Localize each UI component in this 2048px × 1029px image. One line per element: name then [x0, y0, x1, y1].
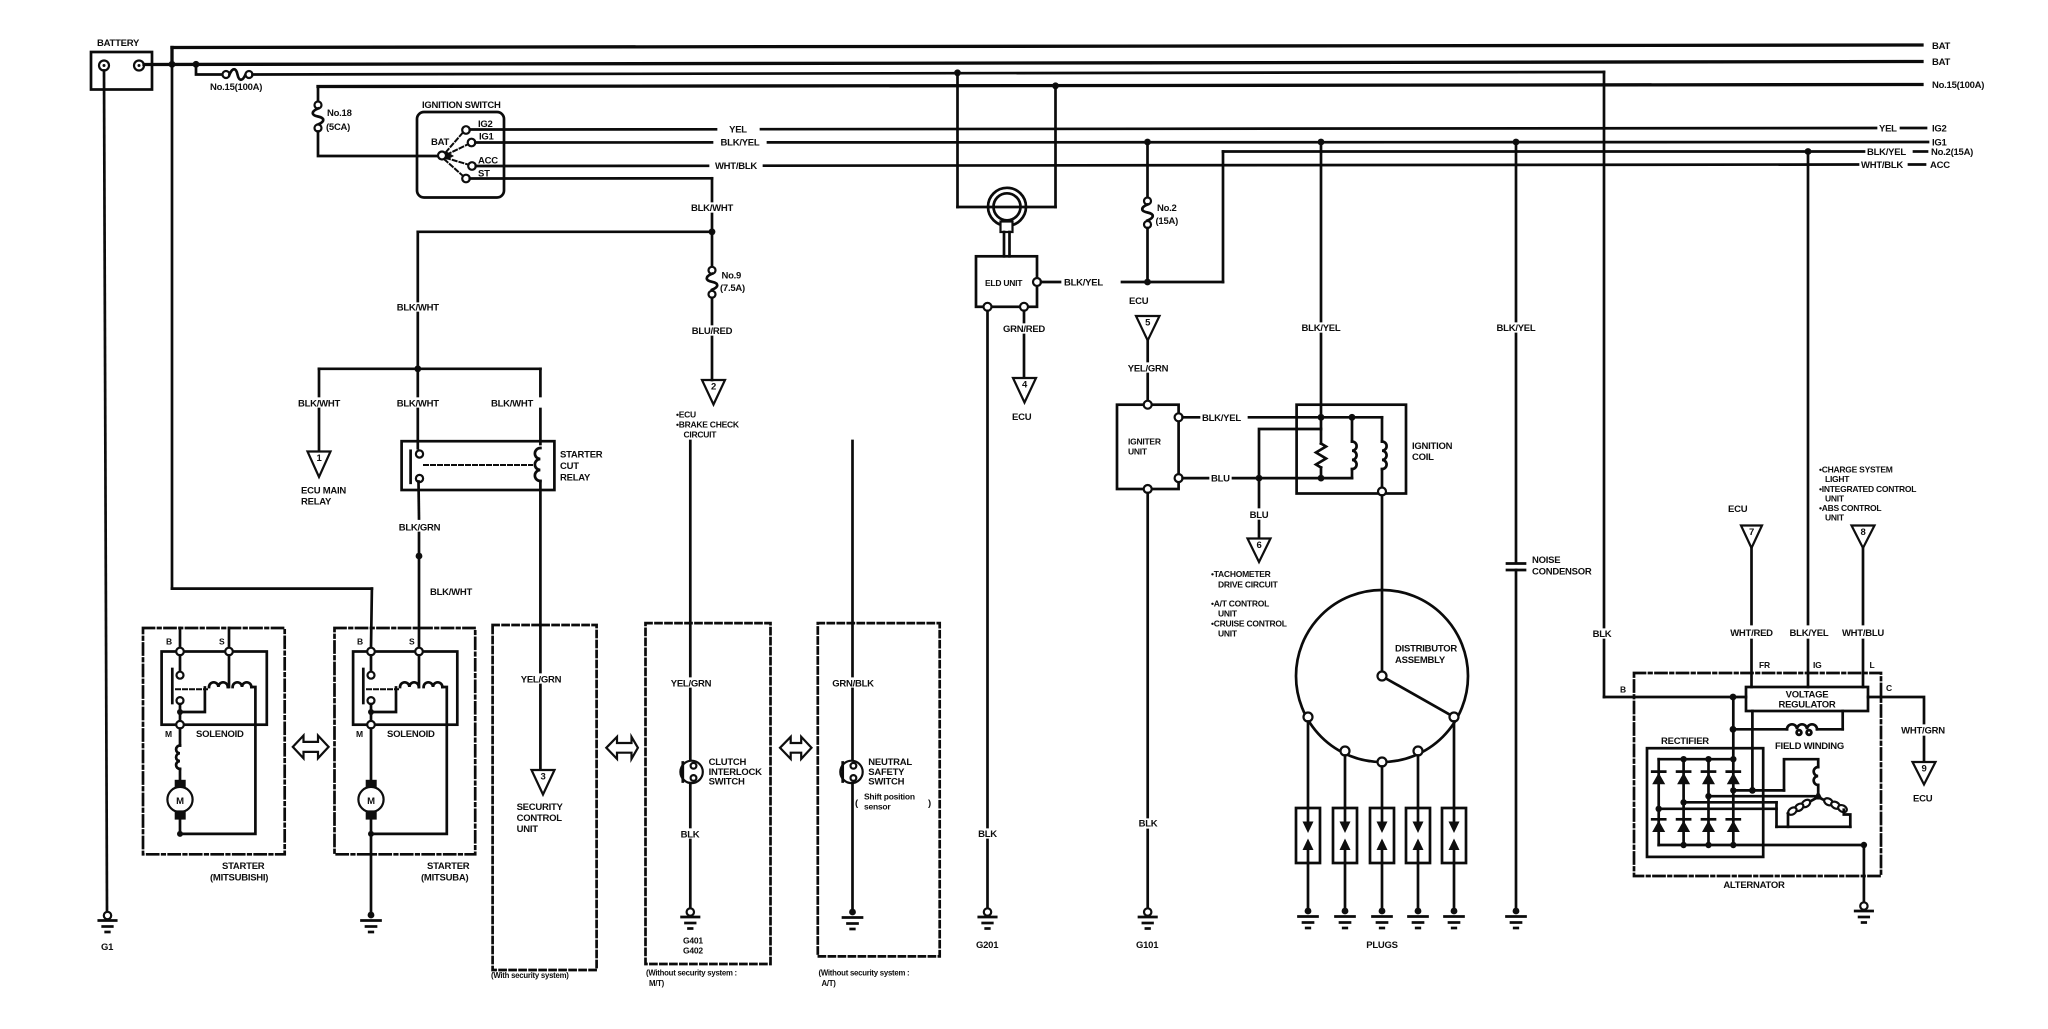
ignition coil box — [1297, 405, 1406, 494]
svg-text:(Without security system :: (Without security system : — [646, 969, 737, 978]
junction dot B rectifier tap — [1730, 694, 1737, 701]
wire WHT/RED to FR — [1750, 548, 1753, 624]
svg-text:•TACHOMETER: •TACHOMETER — [1211, 569, 1271, 579]
svg-text:RELAY: RELAY — [560, 473, 591, 484]
security control unit box — [493, 625, 597, 970]
junction dot coil feed top — [1318, 139, 1325, 146]
svg-text:7: 7 — [1749, 527, 1754, 538]
wire WHT/BLU to L — [1862, 548, 1865, 624]
svg-text:): ) — [928, 798, 931, 809]
junction dot BLU branch — [1256, 475, 1263, 482]
svg-text:DISTRIBUTOR: DISTRIBUTOR — [1395, 644, 1457, 655]
svg-text:9: 9 — [1921, 764, 1926, 775]
wire battery feed to starter B — [171, 65, 174, 589]
junction dot fuse No.2 top — [1144, 139, 1151, 146]
connector 1 (ECU main relay) — [301, 452, 346, 508]
svg-text:M: M — [165, 729, 172, 739]
svg-text:UNIT: UNIT — [1218, 609, 1238, 619]
svg-text:No.15(100A): No.15(100A) — [210, 82, 262, 93]
svg-text:LIGHT: LIGHT — [1825, 474, 1850, 484]
svg-text:BAT: BAT — [1932, 57, 1951, 68]
svg-text:WHT/BLK: WHT/BLK — [715, 161, 757, 172]
svg-text:YEL/GRN: YEL/GRN — [671, 679, 712, 690]
wire plug 4 to ground — [1417, 863, 1420, 907]
ground starter Mitsuba — [362, 912, 381, 932]
svg-text:UNIT: UNIT — [1825, 513, 1845, 523]
igniter unit — [1117, 401, 1183, 493]
wire BAT bus top — [172, 45, 1922, 48]
rectifier box — [1647, 748, 1763, 857]
equivalence arrow 1 — [293, 736, 329, 759]
svg-text:•INTEGRATED CONTROL: •INTEGRATED CONTROL — [1819, 484, 1916, 494]
wire plug 3 to ground — [1381, 863, 1384, 907]
fuse No.9(7.5A) — [707, 232, 745, 298]
svg-text:CIRCUIT: CIRCUIT — [684, 430, 718, 440]
svg-text:STARTER: STARTER — [222, 861, 265, 872]
svg-text:CONDENSOR: CONDENSOR — [1532, 567, 1592, 578]
phase tap D — [1656, 806, 1662, 812]
svg-text:BLU/RED: BLU/RED — [692, 326, 733, 337]
svg-text:YEL: YEL — [1879, 124, 1897, 135]
svg-text:BLK/WHT: BLK/WHT — [397, 399, 439, 410]
svg-text:RELAY: RELAY — [301, 497, 332, 508]
wire ELD GRN/RED to connector 4 — [1023, 311, 1026, 322]
junction dot A — [169, 61, 176, 68]
wire battery negative to G1 — [104, 71, 107, 912]
svg-text:IG: IG — [1813, 660, 1822, 670]
phase tap C — [1680, 799, 1686, 805]
neutral safety switch box — [818, 623, 940, 956]
svg-text:S: S — [409, 637, 415, 647]
wire distributor to plug 1 — [1307, 722, 1310, 809]
svg-text:BLU: BLU — [1250, 510, 1269, 521]
svg-text:B: B — [357, 637, 363, 647]
wire IG2 (YEL) — [470, 128, 716, 131]
wire relay contact to solenoid S — [417, 482, 420, 519]
resistor (coil ballast) — [1316, 417, 1326, 478]
connector 8 (charge light to L) — [1852, 526, 1875, 549]
svg-text:BLK/WHT: BLK/WHT — [691, 203, 733, 214]
wire plug 1 to ground — [1307, 863, 1310, 907]
svg-text:BLK/WHT: BLK/WHT — [430, 587, 472, 598]
ground plug 5 — [1445, 908, 1464, 928]
equivalence arrow 2 — [606, 737, 638, 759]
starter (Mitsubishi) armature coil — [179, 729, 182, 746]
ELD unit — [976, 256, 1041, 311]
svg-text:No.2(15A): No.2(15A) — [1931, 147, 1973, 158]
svg-text:•A/T CONTROL: •A/T CONTROL — [1211, 599, 1269, 609]
wire plug 5 to ground — [1453, 863, 1456, 907]
wire Mitsuba motor to ground — [370, 834, 373, 911]
svg-text:BLK/YEL: BLK/YEL — [1202, 413, 1241, 424]
ground plug 1 — [1299, 908, 1318, 928]
junction dot resistor top — [1318, 414, 1325, 421]
starter cut relay — [402, 441, 603, 490]
svg-text:G401: G401 — [683, 936, 703, 946]
rectifier top bus — [1659, 758, 1734, 761]
svg-text:UNIT: UNIT — [1825, 494, 1845, 504]
ground alternator — [1855, 902, 1872, 922]
svg-text:M/T): M/T) — [649, 979, 665, 988]
wire ELD sensor right drop — [1054, 86, 1057, 207]
svg-text:FR: FR — [1759, 660, 1770, 670]
svg-text:NOISE: NOISE — [1532, 555, 1560, 566]
diode D7 — [1702, 819, 1715, 832]
svg-text:(5CA): (5CA) — [326, 122, 350, 133]
svg-text:(15A): (15A) — [1156, 216, 1179, 227]
svg-text:ECU: ECU — [1728, 504, 1748, 515]
alternator box — [1634, 673, 1881, 876]
svg-text:(Without security system :: (Without security system : — [819, 969, 910, 978]
connector 5 (ECU to igniter) — [1129, 296, 1160, 341]
svg-text:ASSEMBLY: ASSEMBLY — [1395, 655, 1446, 666]
wire relay coil to security unit — [539, 481, 542, 672]
svg-text:BLK: BLK — [681, 830, 700, 841]
junction dot noise condenser — [1513, 139, 1520, 146]
wire No.18 fuse to ignition switch BAT — [318, 132, 437, 157]
svg-text:sensor: sensor — [864, 802, 891, 812]
connector 6 (tachometer drive) — [1211, 539, 1287, 639]
svg-text:IG2: IG2 — [1932, 124, 1947, 135]
phase tap A — [1730, 787, 1736, 793]
diode D5 — [1652, 819, 1665, 832]
ground (neutral safety) — [843, 909, 862, 929]
wire ELD sensor bottom — [958, 206, 1056, 209]
svg-text:G101: G101 — [1136, 940, 1159, 951]
junction dot ELD feed 1 — [954, 69, 961, 76]
connector 7 (ECU to FR) — [1728, 504, 1762, 548]
svg-text:G1: G1 — [101, 942, 114, 953]
ignition coil secondary winding — [1378, 417, 1387, 495]
wire No.18 fuse drop — [317, 87, 320, 102]
rectifier bottom bus to ground riser — [1659, 844, 1864, 847]
svg-text:M: M — [356, 729, 363, 739]
connector 4 (ECU) — [1012, 378, 1036, 423]
ground plug 3 — [1373, 908, 1392, 928]
ignition coil primary winding — [1352, 417, 1357, 478]
diode D8 — [1727, 819, 1740, 832]
wire regulator stub right — [1841, 711, 1844, 729]
ground G101 — [1139, 908, 1156, 928]
junction dot rotor tap — [1749, 787, 1756, 794]
wire fuse No.15 output to alternator B — [253, 72, 1605, 75]
starter (Mitsubishi) motor — [167, 780, 192, 837]
distributor assembly — [1296, 590, 1468, 767]
svg-text:UNIT: UNIT — [1128, 447, 1148, 457]
spark plug 4 — [1406, 808, 1430, 863]
wire IG1 (BLK/YEL) — [475, 141, 712, 144]
svg-text:BLK/WHT: BLK/WHT — [491, 399, 533, 410]
svg-text:SOLENOID: SOLENOID — [196, 729, 244, 740]
svg-text:ELD UNIT: ELD UNIT — [985, 278, 1023, 288]
svg-text:BLK: BLK — [978, 829, 997, 840]
connector 3 (security control unit) — [517, 770, 564, 835]
wire No.2(15A) feed bus — [1223, 150, 1864, 153]
diode D3 — [1702, 772, 1715, 785]
svg-text:SWITCH: SWITCH — [709, 777, 745, 788]
junction dot primary top — [1349, 414, 1356, 421]
wire No.15 feed bus — [318, 85, 1922, 87]
svg-text:GRN/BLK: GRN/BLK — [832, 679, 874, 690]
wire YEL/GRN to igniter — [1146, 341, 1149, 362]
svg-text:UNIT: UNIT — [517, 824, 539, 835]
svg-text:YEL/GRN: YEL/GRN — [521, 675, 562, 686]
junction dot on ELD wire — [1144, 279, 1151, 286]
svg-text:6: 6 — [1256, 540, 1261, 551]
svg-text:(With security system): (With security system) — [491, 971, 569, 980]
wire ELD to G201 — [986, 311, 989, 827]
neutral safety switch — [840, 757, 931, 812]
junction dot ELD feed 2 — [1052, 82, 1059, 89]
wire drop to Mitsuba B terminal — [370, 589, 374, 648]
diode D4 — [1727, 772, 1740, 785]
junction dot ST branch — [709, 228, 716, 235]
svg-text:BATTERY: BATTERY — [97, 38, 140, 49]
svg-text:BLK/YEL: BLK/YEL — [721, 138, 760, 149]
spark plug 1 — [1296, 808, 1320, 863]
svg-text:UNIT: UNIT — [1218, 629, 1238, 639]
svg-text:CONTROL: CONTROL — [517, 813, 563, 824]
wire to fuse No.15 — [196, 65, 223, 75]
svg-text:G201: G201 — [976, 940, 999, 951]
fuse No.18(5CA) — [313, 102, 352, 134]
svg-text:S: S — [219, 637, 225, 647]
svg-text:3: 3 — [540, 772, 545, 783]
starter (Mitsuba) solenoid — [353, 637, 457, 834]
noise condenser — [1507, 555, 1592, 578]
svg-text:ACC: ACC — [1930, 160, 1950, 171]
svg-text:•BRAKE CHECK: •BRAKE CHECK — [676, 420, 740, 430]
rectifier column 2 — [1682, 759, 1685, 845]
wire stub between BAT buses — [170, 48, 173, 65]
connector 9 (ECU) — [1913, 762, 1936, 805]
battery — [91, 38, 152, 90]
ELD current sensor ring — [988, 188, 1026, 256]
svg-text:IG1: IG1 — [479, 132, 495, 143]
starter (Mitsuba) outer box — [335, 628, 476, 854]
svg-text:DRIVE CIRCUIT: DRIVE CIRCUIT — [1218, 580, 1279, 590]
diode D2 — [1677, 772, 1690, 785]
svg-text:Shift position: Shift position — [864, 792, 915, 802]
junction dot IG drop — [1805, 148, 1812, 155]
svg-text:L: L — [1870, 660, 1875, 670]
svg-text:YEL/GRN: YEL/GRN — [1128, 364, 1169, 375]
starter (Mitsubishi) outer box — [143, 628, 285, 854]
wire ST (BLK/WHT) — [470, 177, 712, 180]
svg-text:WHT/RED: WHT/RED — [1730, 628, 1773, 639]
svg-text:BLK/YEL: BLK/YEL — [1867, 147, 1906, 158]
svg-text:BLK/YEL: BLK/YEL — [1302, 323, 1341, 334]
stator winding assembly — [1777, 759, 1851, 827]
svg-text:8: 8 — [1860, 527, 1865, 538]
wire riser to No.2 bus — [1222, 152, 1225, 283]
wire plug 2 to ground — [1344, 863, 1347, 907]
wire C from regulator — [1868, 697, 1924, 723]
svg-text:IGNITION: IGNITION — [1412, 441, 1453, 452]
wire grn/blk to neutral switch — [851, 441, 854, 676]
svg-text:GRN/RED: GRN/RED — [1003, 324, 1045, 335]
svg-text:No.18: No.18 — [327, 108, 352, 119]
junction dot splice — [416, 553, 423, 560]
wire ST horizontal to relay column — [418, 230, 712, 233]
wire BLU/RED to connector 2 — [711, 298, 714, 324]
wire distributor to plug 3 — [1381, 767, 1384, 809]
svg-text:PLUGS: PLUGS — [1366, 940, 1397, 951]
svg-text:WHT/BLK: WHT/BLK — [1861, 160, 1903, 171]
svg-text:SWITCH: SWITCH — [868, 777, 904, 788]
rectifier column 3 — [1707, 759, 1710, 845]
equivalence arrow 3 — [780, 737, 812, 759]
svg-text:(MITSUBISHI): (MITSUBISHI) — [210, 873, 268, 884]
svg-text:A/T): A/T) — [822, 979, 837, 988]
ground noise condenser — [1507, 908, 1526, 928]
charge system light note — [1819, 465, 1916, 523]
wire igniter BLU to coil — [1183, 477, 1208, 480]
wire clutch switch to ground — [689, 783, 692, 827]
svg-text:YEL: YEL — [729, 125, 747, 136]
svg-text:REGULATOR: REGULATOR — [1778, 700, 1835, 711]
wire distributor to plug 5 — [1453, 722, 1456, 809]
svg-text:BLK/WHT: BLK/WHT — [298, 399, 340, 410]
rectifier column 1 — [1657, 759, 1660, 845]
diode D1 — [1652, 772, 1665, 785]
diode D6 — [1677, 819, 1690, 832]
ground G401/G402 — [682, 908, 699, 928]
connector 2 (brake check) — [676, 380, 740, 440]
svg-text:BLK: BLK — [1593, 629, 1612, 640]
ignition switch — [417, 100, 504, 198]
svg-text:M: M — [367, 796, 375, 807]
wire BLK/YEL to IG — [1807, 152, 1810, 625]
svg-text:ALTERNATOR: ALTERNATOR — [1723, 880, 1785, 891]
svg-text:ECU: ECU — [1012, 412, 1032, 423]
spark plug 5 — [1442, 808, 1466, 863]
wire ACC (WHT/BLK) — [476, 164, 708, 167]
wire neutral switch to ground — [851, 783, 854, 908]
wire fuse No.2 to ELD wire — [1146, 228, 1149, 282]
svg-text:B: B — [166, 637, 172, 647]
svg-text:B: B — [1620, 685, 1626, 695]
wire to ECU main relay connector — [318, 369, 321, 396]
wire alternator ground riser — [1863, 845, 1866, 901]
svg-text:G402: G402 — [683, 946, 703, 956]
svg-text:BLK/YEL: BLK/YEL — [1064, 278, 1103, 289]
svg-text:No.15(100A): No.15(100A) — [1932, 80, 1984, 91]
svg-text:BAT: BAT — [1932, 41, 1951, 52]
junction dot relay branch — [414, 365, 421, 372]
svg-text:CUT: CUT — [560, 461, 579, 472]
spark plug 3 — [1370, 808, 1394, 863]
svg-text:SOLENOID: SOLENOID — [387, 729, 435, 740]
svg-text:BLK/GRN: BLK/GRN — [399, 523, 441, 534]
wire B to regulator — [1604, 696, 1746, 699]
svg-text:•CRUISE CONTROL: •CRUISE CONTROL — [1211, 619, 1287, 629]
svg-text:M: M — [176, 796, 184, 807]
wire ST drop at ignition — [711, 178, 714, 201]
wire feed across to Mitsuba B — [172, 587, 372, 590]
wire regulator stub to rotor tap — [1751, 711, 1754, 790]
svg-text:(7.5A): (7.5A) — [720, 283, 745, 294]
svg-text:ECU: ECU — [1129, 296, 1149, 307]
svg-text:WHT/BLU: WHT/BLU — [1842, 628, 1884, 639]
wire yel/grn to clutch switch — [689, 441, 692, 676]
field winding — [1733, 724, 1844, 752]
fuse No.2(15A) — [1142, 142, 1178, 228]
svg-text:BLK: BLK — [1139, 819, 1158, 830]
wire to noise condenser — [1515, 142, 1518, 321]
wire relay column vertical — [416, 232, 419, 301]
wire branch header — [319, 367, 540, 370]
svg-text:IGNITER: IGNITER — [1128, 437, 1161, 447]
ground plug 2 — [1336, 908, 1355, 928]
svg-text:(MITSUBA): (MITSUBA) — [421, 873, 468, 884]
ground plug 4 — [1409, 908, 1428, 928]
svg-text:C: C — [1886, 683, 1892, 693]
svg-text:•CHARGE SYSTEM: •CHARGE SYSTEM — [1819, 465, 1893, 475]
svg-text:STARTER: STARTER — [427, 861, 470, 872]
wire igniter BLK/YEL to coil — [1183, 416, 1199, 419]
svg-text:IGNITION SWITCH: IGNITION SWITCH — [422, 100, 501, 111]
svg-text:FIELD WINDING: FIELD WINDING — [1775, 741, 1844, 752]
clutch interlock switch box — [646, 623, 771, 964]
wire BLU loop — [1259, 429, 1321, 478]
wire BAT bus 2 from battery — [144, 62, 1922, 65]
wire distributor to plug 2 — [1344, 756, 1347, 809]
svg-text:BLK/YEL: BLK/YEL — [1790, 628, 1829, 639]
wire B vertical through rectifier (column 4) — [1732, 697, 1735, 845]
clutch interlock switch — [680, 757, 762, 788]
svg-text:COIL: COIL — [1412, 452, 1434, 463]
wire to starter cut relay coil — [539, 369, 542, 396]
svg-text:2: 2 — [711, 382, 716, 393]
svg-text:BLK/WHT: BLK/WHT — [397, 303, 439, 314]
wire distributor to plug 4 — [1417, 756, 1420, 809]
voltage regulator — [1746, 687, 1868, 711]
wire alternator B drop — [1603, 72, 1606, 627]
wire coil secondary to distributor — [1381, 496, 1384, 672]
svg-text:ECU: ECU — [1913, 794, 1933, 805]
wire WHT/GRN to connector 9 — [1923, 737, 1926, 762]
wire ELD BLK/YEL — [1041, 281, 1060, 284]
fuse No.15(100A) — [210, 69, 262, 93]
starter (Mitsuba) motor — [358, 729, 383, 837]
junction dot B — [193, 61, 200, 68]
svg-text:STARTER: STARTER — [560, 450, 603, 461]
phase tap B — [1705, 793, 1711, 799]
svg-text:SECURITY: SECURITY — [517, 802, 564, 813]
wire noise condenser to ground — [1515, 570, 1518, 907]
svg-text:•ABS CONTROL: •ABS CONTROL — [1819, 503, 1881, 513]
wire to starter cut relay contact — [416, 369, 419, 396]
wire BLU branch to connector 6 — [1258, 478, 1261, 507]
svg-text:BAT: BAT — [431, 137, 450, 148]
svg-text:BLK/YEL: BLK/YEL — [1497, 323, 1536, 334]
starter (Mitsubishi) solenoid — [162, 628, 267, 834]
svg-text:ECU MAIN: ECU MAIN — [301, 486, 346, 497]
wire ELD sensor left drop — [956, 73, 959, 207]
wire BLK/YEL feed drop to coil — [1320, 142, 1323, 321]
junction dot field winding tap — [1730, 726, 1737, 733]
ground G1 — [99, 912, 116, 932]
ground G201 — [979, 908, 996, 928]
svg-text:•ECU: •ECU — [676, 410, 696, 420]
svg-text:WHT/GRN: WHT/GRN — [1901, 726, 1945, 737]
svg-text:RECTIFIER: RECTIFIER — [1661, 736, 1709, 747]
wire igniter to G101 — [1146, 493, 1149, 817]
svg-text:BLU: BLU — [1211, 474, 1230, 485]
spark plug 2 — [1333, 808, 1357, 863]
junction dot resistor bottom — [1318, 475, 1325, 482]
